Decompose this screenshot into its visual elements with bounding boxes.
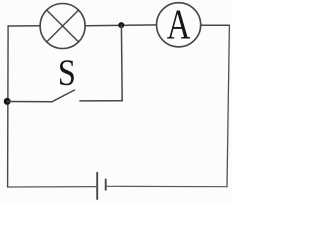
ammeter U1 circle — [157, 3, 201, 47]
svg-text:S: S — [58, 52, 76, 94]
wire bottom right to battery — [106, 185, 227, 187]
node junction dot (top) — [118, 22, 124, 28]
battery positive plate (long) — [96, 173, 98, 199]
lamp L1 (circle with X) — [40, 4, 85, 49]
switch S right lead — [80, 100, 122, 102]
wire battery to bottom-left corner — [8, 186, 98, 188]
junction dot left (node B) — [4, 98, 11, 105]
wire ammeter to top-right corner — [201, 24, 230, 26]
svg-text:A: A — [167, 2, 191, 49]
wire left side — [7, 26, 10, 187]
wire top-left to lamp — [8, 25, 40, 27]
switch S left lead — [7, 101, 52, 103]
wire right side — [227, 25, 229, 187]
wire switch to node — [120, 25, 123, 101]
switch S blade — [52, 90, 75, 102]
battery negative plate (short) — [105, 179, 107, 189]
wire lamp to ammeter — [85, 24, 156, 27]
